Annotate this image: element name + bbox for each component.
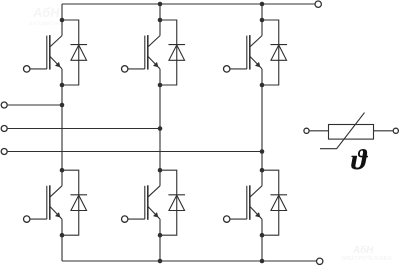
diode D3 cathode bar [270,44,287,46]
transistor Q3 body bar [249,35,251,70]
node: diode branch top junction (D3) [260,18,265,23]
terminal: AC output U [1,102,7,108]
terminal: DC- [317,258,323,264]
wire: gate lead of Q1 [30,68,47,70]
transistor Q6 emitter arrow [255,212,260,217]
svg-text:АбН: АбН [32,5,60,20]
diode D5 triangle [169,195,185,210]
wire: diode D1 branch top [62,20,79,85]
diode D5 cathode bar [168,194,185,196]
transistor Q6 gate line [246,186,248,219]
terminal: gate G6 [224,216,230,222]
transistor Q3 emitter arrow [255,62,260,67]
svg-text:АбН: АбН [352,244,374,256]
node: bottom rail / leg 2 junction [158,259,163,264]
transistor Q4 emitter diagonal [50,206,62,219]
node: diode branch bottom junction (D3) [260,83,265,88]
terminal: gate G3 [224,66,230,72]
wire: DC+ top rail [62,3,315,5]
watermark top-left [29,5,64,27]
transistor Q4 collector diagonal [50,186,62,197]
wire: diode D3 branch top [262,20,279,85]
wire: leg 3 emitter to DC- rail [261,219,263,261]
wire: gate lead of Q3 [230,68,247,70]
transistor Q5 gate line [144,186,146,219]
transistor Q1 body bar [49,35,51,70]
terminal: thermistor right [393,128,398,133]
transistor Q2 emitter diagonal [148,56,160,69]
thermistor diagonal stroke [320,113,365,149]
node: diode branch top junction (D5) [158,168,163,173]
node: diode branch bottom junction (D1) [60,83,65,88]
node: diode branch top junction (D4) [60,168,65,173]
terminal: gate G1 [24,66,30,72]
transistor Q1 emitter arrow [55,62,60,67]
wire: leg collector segment above Q1 [61,4,63,36]
wire: gate lead of Q4 [30,218,47,220]
node: diode branch top junction (D1) [60,18,65,23]
node: diode branch bottom junction (D6) [260,233,265,238]
diode D6 cathode bar [270,194,287,196]
diode D2 cathode bar [168,44,185,46]
terminal: gate G4 [24,216,30,222]
wire: diode D6 branch top [262,170,279,235]
terminal: AC output V [1,126,7,132]
wire: thermistor right lead [374,130,393,132]
terminal: thermistor left [304,128,309,133]
transistor Q1 gate line [46,36,48,69]
terminal: AC output W [1,149,7,155]
wire: leg collector segment above Q3 [261,4,263,36]
transistor Q5 emitter diagonal [148,206,160,219]
diode D1 triangle [71,45,87,60]
wire: phase W line [8,151,262,153]
diode D3 triangle [271,45,287,60]
transistor Q3 gate line [246,36,248,69]
transistor Q5 collector diagonal [148,186,160,197]
transistor Q2 collector diagonal [148,36,160,47]
transistor Q5 emitter arrow [153,212,158,217]
transistor Q3 emitter diagonal [250,56,262,69]
transistor Q4 gate line [46,186,48,219]
wire: leg 1 emitter to DC- rail [61,219,63,261]
transistor Q6 collector diagonal [250,186,262,197]
node: diode branch bottom junction (D4) [60,233,65,238]
wire: phase U line [8,104,62,106]
terminal: DC+ [315,1,321,7]
watermark bottom-right [341,244,392,262]
node: diode branch top junction (D2) [158,18,163,23]
transistor Q2 body bar [147,35,149,70]
diode D2 triangle [169,45,185,60]
node: diode branch bottom junction (D2) [158,83,163,88]
transistor Q2 emitter arrow [153,62,158,67]
node: bottom rail / leg 3 junction [260,259,265,264]
node: top rail / leg 3 junction [260,2,265,7]
transistor Q6 emitter diagonal [250,206,262,219]
wire: leg 3 midpoint vertical [261,69,263,186]
transistor Q4 body bar [49,185,51,220]
diode D4 cathode bar [70,194,87,196]
wire: gate lead of Q2 [128,68,145,70]
wire: DC- bottom rail [62,260,316,262]
terminal: gate G5 [122,216,128,222]
wire: phase V line [8,128,160,130]
transistor Q4 emitter arrow [55,212,60,217]
wire: leg collector segment above Q2 [159,4,161,36]
node: phase U / leg 1 junction [60,103,65,108]
transistor Q1 collector diagonal [50,36,62,47]
wire: leg 2 midpoint vertical [159,69,161,186]
transistor Q5 body bar [147,185,149,220]
transistor Q2 gate line [144,36,146,69]
diode D4 triangle [71,195,87,210]
node: diode branch bottom junction (D5) [158,233,163,238]
svg-text:ЭЛЕКТРОТЕХНИКА: ЭЛЕКТРОТЕХНИКА [341,256,392,262]
transistor Q6 body bar [249,185,251,220]
wire: diode D4 branch top [62,170,79,235]
node: phase W / leg 3 junction [260,149,265,154]
thermistor RT body (rectangle) [329,125,374,140]
node: diode branch top junction (D6) [260,168,265,173]
label: temperature theta [351,149,368,170]
transistor Q3 collector diagonal [250,36,262,47]
wire: gate lead of Q6 [230,218,247,220]
node: phase V / leg 2 junction [158,126,163,131]
svg-text:автоматика: автоматика [29,20,64,27]
wire: leg 1 midpoint vertical [61,69,63,186]
diode D1 cathode bar [70,44,87,46]
terminal: gate G2 [122,66,128,72]
node: top rail / leg 2 junction [158,2,163,7]
wire: thermistor left lead [310,130,329,132]
wire: gate lead of Q5 [128,218,145,220]
wire: diode D5 branch top [160,170,177,235]
transistor Q1 emitter diagonal [50,56,62,69]
diode D6 triangle [271,195,287,210]
wire: leg 2 emitter to DC- rail [159,219,161,261]
wire: diode D2 branch top [160,20,177,85]
